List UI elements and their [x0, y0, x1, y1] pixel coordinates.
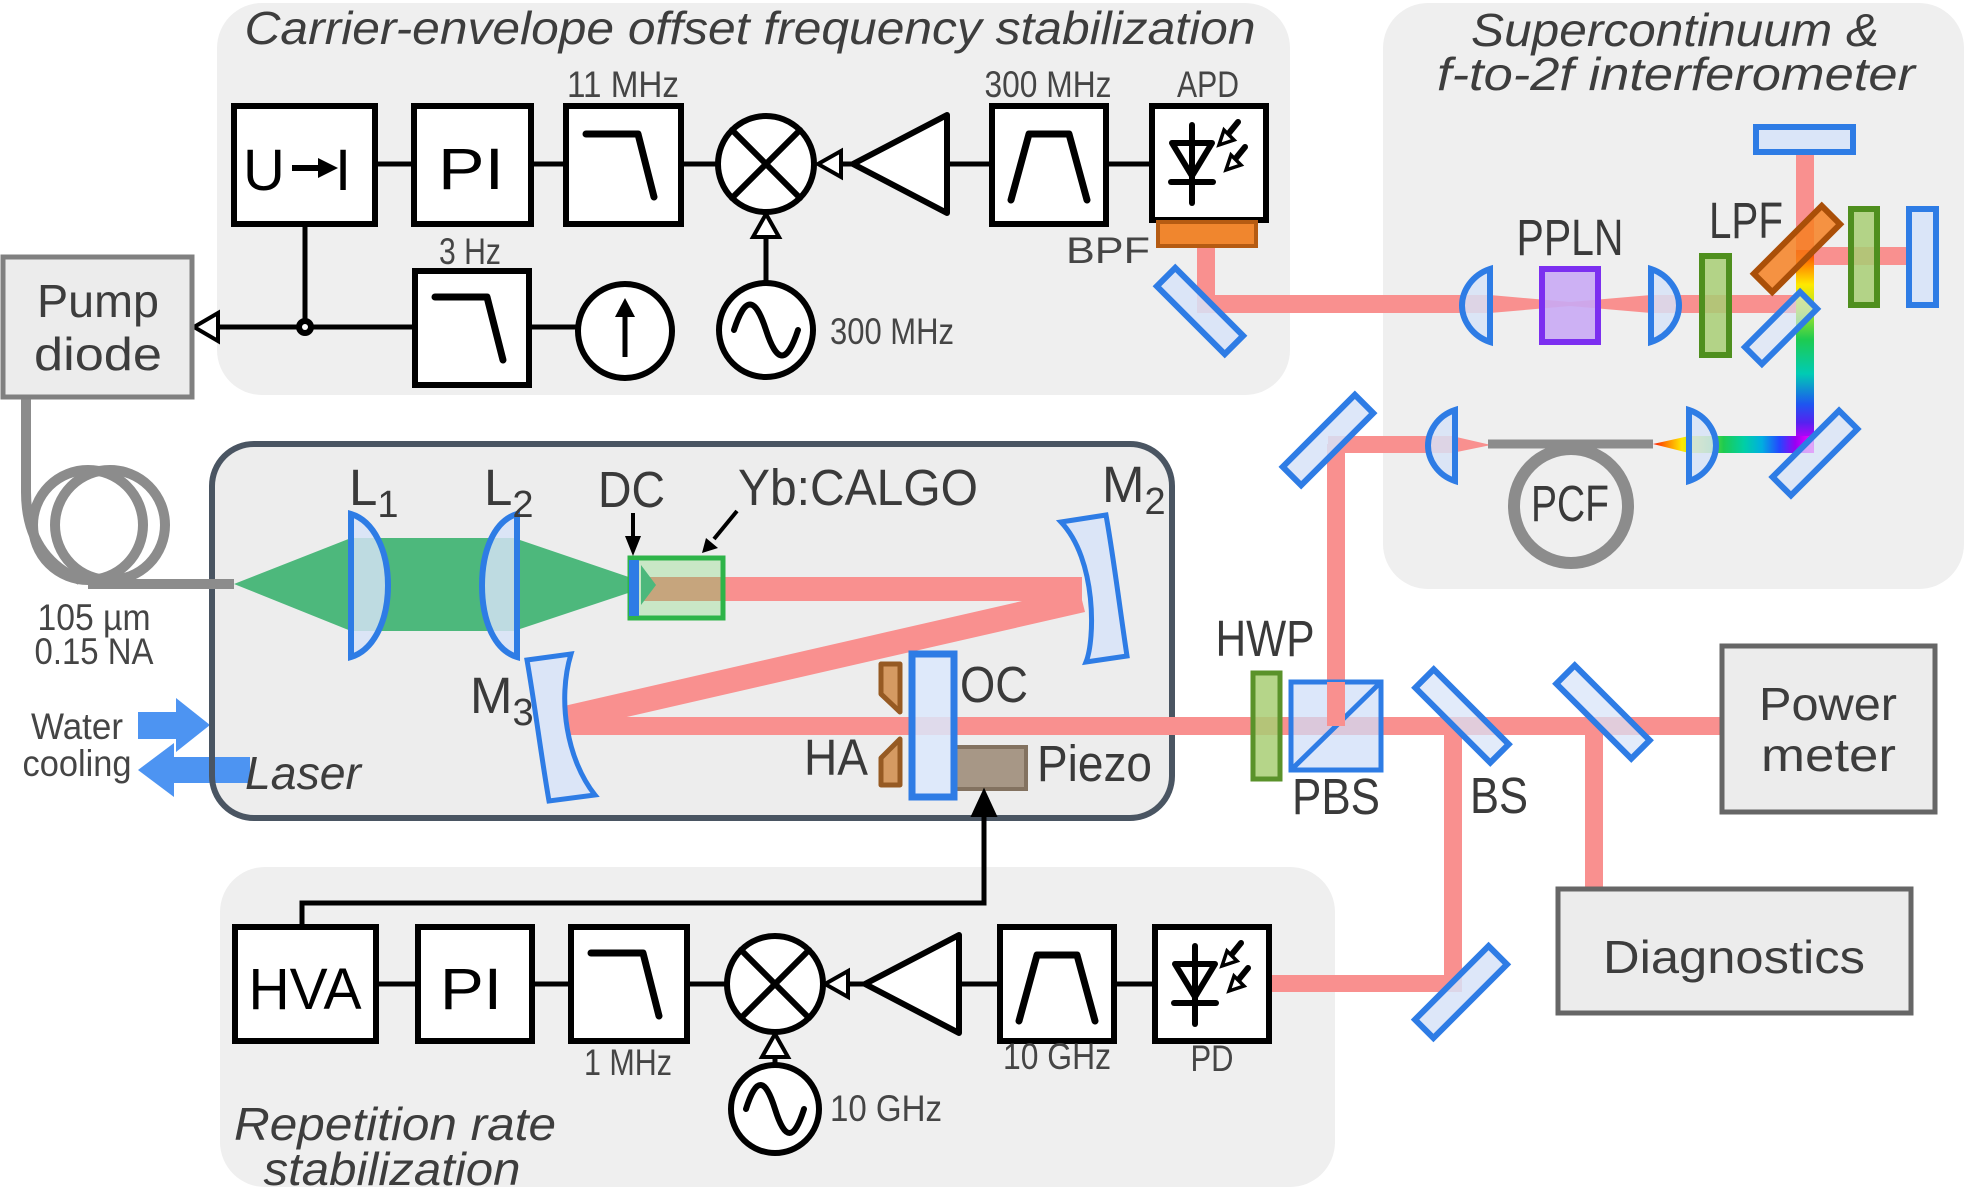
PD photodiode glyph: [1174, 943, 1248, 1024]
svg-text:300 MHz: 300 MHz: [985, 64, 1112, 105]
svg-text:Diagnostics: Diagnostics: [1603, 931, 1865, 983]
beam converging into PPLN: [1490, 295, 1570, 313]
pump fiber from pump diode: [26, 395, 80, 580]
Yb:CALGO crystal body: [630, 558, 723, 618]
beam PBS reflected up (over PBS): [1327, 682, 1345, 726]
long-pass filter LPF: [1754, 206, 1840, 292]
svg-text:HA: HA: [804, 729, 868, 786]
beam LPF right arm to flat mirror: [1805, 247, 1912, 265]
main output beam M3 to power meter: [566, 717, 1722, 735]
current source circle: [578, 284, 672, 378]
wire amp to 10GHz BPF: [959, 982, 1000, 987]
300 MHz source circle: [719, 283, 813, 377]
svg-text:10 GHz: 10 GHz: [830, 1088, 942, 1129]
output coupler OC: [912, 654, 954, 797]
svg-text:U: U: [243, 138, 285, 203]
svg-text:11 MHz: 11 MHz: [567, 64, 679, 105]
wire PI to 1MHz: [532, 982, 571, 987]
1MHz low-pass glyph: [591, 953, 659, 1016]
svg-text:diode: diode: [34, 328, 162, 380]
hard aperture HA upper wedge: [881, 664, 900, 712]
wire amp to 300MHz BPF: [947, 162, 992, 167]
11 MHz low-pass filter box: [566, 106, 681, 224]
APD box: [1152, 106, 1266, 220]
svg-text:cooling: cooling: [23, 743, 132, 784]
supercontinuum rainbow beam vertical: [1796, 250, 1814, 453]
fold mirror to PD: [1415, 946, 1507, 1038]
green filter after PPLN: [1702, 256, 1729, 355]
PCF input lens: [1428, 410, 1455, 481]
PI controller box bottom: [418, 927, 532, 1041]
svg-text:1 MHz: 1 MHz: [584, 1042, 672, 1083]
beam converging into PCF fiber: [1452, 436, 1491, 453]
Yb:CALGO pointer arrow: [714, 511, 737, 539]
supercontinuum bottom fold mirror: [1773, 411, 1858, 496]
right arm flat mirror: [1909, 209, 1936, 305]
arrowhead into bottom mixer from amp: [825, 971, 848, 997]
arrowhead into piezo: [972, 790, 996, 816]
PI controller box: [414, 106, 531, 224]
PPLN crystal: [1542, 269, 1598, 342]
low-pass glyph: [586, 134, 654, 197]
DC coating stripe: [629, 560, 639, 616]
U to I converter box: [234, 106, 375, 224]
3 Hz low-pass filter box: [415, 271, 529, 385]
wire 10GHz BPF to PD: [1114, 982, 1155, 987]
svg-text:Power: Power: [1759, 678, 1897, 730]
polarizing beam splitter PBS: [1291, 682, 1381, 770]
mixer cross: [732, 130, 800, 198]
green pump beam converging into crystal: [517, 539, 652, 630]
beam second splitter down to diagnostics: [1585, 726, 1603, 889]
PD box: [1155, 927, 1269, 1041]
svg-text:Piezo: Piezo: [1037, 735, 1152, 792]
bottom mixer cross: [741, 950, 809, 1018]
PCF fiber line: [1488, 440, 1653, 449]
piezo actuator: [954, 747, 1026, 789]
svg-text:HVA: HVA: [249, 957, 362, 1022]
junction node: [296, 318, 314, 336]
svg-text:PPLN: PPLN: [1517, 209, 1624, 266]
green pump beam collimated L1 to L2: [351, 538, 517, 631]
beam top mirror down to LPF: [1796, 152, 1814, 252]
lens L1: [351, 514, 388, 657]
svg-text:stabilization: stabilization: [264, 1143, 521, 1195]
svg-text:Pump: Pump: [37, 275, 159, 327]
pump focus wedge in crystal: [641, 565, 656, 605]
DC pointer arrow: [631, 513, 635, 538]
curved mirror M2: [1061, 515, 1127, 662]
HVA box: [235, 927, 376, 1041]
svg-text:10 GHz: 10 GHz: [1003, 1036, 1111, 1077]
arrowhead into pump diode: [194, 313, 218, 341]
fold mirror into supercontinuum: [1283, 395, 1374, 486]
curved mirror M3: [527, 654, 595, 801]
arrowhead into mixer from source: [753, 214, 779, 237]
beam mirror to PD: [1269, 975, 1462, 992]
svg-text:I: I: [335, 138, 351, 203]
right arm green filter: [1851, 209, 1877, 305]
beam f-to-2f to APD fold mirror: [1197, 295, 1490, 313]
APD photodiode glyph: [1171, 122, 1245, 203]
beam splitter BS: [1415, 669, 1508, 762]
fold mirror to power meter: [1556, 665, 1649, 758]
BPF orange filter on APD: [1158, 222, 1256, 246]
wire amp to mixer: [841, 162, 856, 167]
beam fold mirror to PCF input lens: [1328, 436, 1452, 453]
current source arrow: [623, 313, 628, 357]
mixer circle: [718, 116, 814, 212]
1 MHz low-pass filter box: [571, 927, 687, 1041]
feedback line HVA to piezo: [302, 812, 984, 941]
pump fiber coil loop 2: [55, 470, 165, 580]
svg-text:3 Hz: 3 Hz: [439, 231, 501, 272]
bottom mixer circle: [727, 936, 823, 1032]
panel: repetition rate stabilization: [220, 867, 1335, 1187]
3Hz low-pass glyph: [435, 297, 503, 360]
svg-text:DC: DC: [598, 461, 665, 518]
wire 1MHz to mixer: [687, 982, 727, 987]
laser box outline: [212, 444, 1172, 818]
beam PBS up to fold mirror: [1327, 444, 1345, 726]
sine glyph: [734, 305, 798, 356]
lens L2: [482, 514, 517, 657]
water cooling arrow out: [138, 743, 250, 797]
bottom amplifier triangle: [865, 935, 959, 1033]
svg-text:PI: PI: [438, 137, 504, 202]
wire 300MHz BPF to APD: [1106, 162, 1152, 167]
laser cavity beam crystal to M2: [639, 577, 1082, 601]
half-wave plate HWP: [1253, 673, 1280, 779]
crystal outline: [630, 558, 723, 618]
band-pass glyph: [1011, 134, 1087, 200]
svg-text:meter: meter: [1761, 729, 1896, 781]
lens before PPLN: [1462, 269, 1490, 342]
beam BS down: [1444, 726, 1462, 992]
svg-text:Laser: Laser: [245, 747, 363, 799]
10GHz band-pass glyph: [1019, 955, 1095, 1021]
svg-text:HWP: HWP: [1216, 610, 1315, 667]
wire 3Hz to current source: [529, 325, 578, 330]
svg-text:Yb:CALGO: Yb:CALGO: [738, 459, 978, 516]
laser cavity diagonal beam M2 to M3: [564, 588, 1085, 730]
beam APD down from bandpass filter: [1197, 246, 1215, 312]
svg-text:PCF: PCF: [1531, 475, 1609, 532]
fold mirror below BPF: [1157, 268, 1243, 354]
PBS diagonal: [1291, 682, 1381, 770]
svg-text:PD: PD: [1191, 1038, 1234, 1079]
crystal gain band (beam overlap): [641, 577, 723, 601]
wire junction to pump diode: [216, 325, 415, 330]
power meter box: [1722, 646, 1935, 812]
wire 10GHz source to mixer: [773, 1057, 778, 1065]
diagnostics box: [1558, 889, 1911, 1013]
svg-text:PBS: PBS: [1292, 768, 1380, 825]
panel: carrier-envelope offset frequency stabilization: [217, 3, 1290, 395]
pump diode box: [3, 257, 192, 397]
svg-text:0.15 NA: 0.15 NA: [35, 631, 154, 672]
10 GHz source circle: [731, 1065, 819, 1153]
PD light arrowheads: [1222, 951, 1237, 966]
pump fiber into laser box: [88, 579, 234, 589]
supercontinuum rainbow beam horizontal from PCF: [1653, 436, 1813, 453]
water cooling arrow in: [138, 698, 210, 752]
wire U-I down to junction: [303, 224, 308, 327]
beam diverging out of PPLN: [1570, 295, 1651, 313]
wire 11MHz LPF to mixer: [681, 162, 718, 167]
svg-text:Water: Water: [31, 706, 123, 747]
APD light arrowheads: [1219, 130, 1234, 145]
laser box: [212, 444, 1172, 818]
PCF output lens: [1689, 410, 1716, 481]
pump fiber coil loop 1: [33, 470, 143, 580]
bottom sine glyph: [746, 1085, 804, 1133]
svg-text:PI: PI: [440, 957, 502, 1022]
svg-text:300 MHz: 300 MHz: [830, 311, 954, 352]
wire amp to mixer bottom: [848, 982, 868, 987]
wire 300MHz source to mixer: [764, 237, 769, 283]
wire PI to 11MHz LPF: [531, 162, 566, 167]
panel: supercontinuum f-to-2f interferometer: [1383, 3, 1964, 589]
svg-text:OC: OC: [960, 656, 1028, 713]
beam PPLN lens to interferometer: [1651, 295, 1813, 313]
wire HVA to PI: [376, 982, 418, 987]
beam combiner mirror: [1745, 292, 1817, 364]
300 MHz band-pass filter box: [992, 106, 1106, 224]
green pump beam cone from fiber to L1: [234, 538, 351, 631]
arrowhead into bottom mixer from source: [762, 1034, 788, 1057]
svg-text:BPF: BPF: [1066, 230, 1150, 271]
10 GHz band-pass filter box: [1000, 927, 1114, 1041]
hard aperture HA lower wedge: [881, 739, 900, 785]
svg-text:f-to-2f interferometer: f-to-2f interferometer: [1437, 48, 1917, 100]
svg-text:Carrier-envelope offset freque: Carrier-envelope offset frequency stabil…: [245, 2, 1256, 54]
amplifier triangle: [853, 115, 947, 213]
U-I arrow glyph: [292, 165, 322, 171]
svg-text:BS: BS: [1470, 767, 1528, 824]
arrowhead into mixer from amp: [818, 151, 841, 177]
PCF fiber coil: [1514, 449, 1628, 563]
top retro mirror of interferometer: [1756, 127, 1853, 152]
wire U-I to PI: [375, 162, 414, 167]
svg-text:LPF: LPF: [1709, 192, 1783, 249]
lens after PPLN: [1651, 269, 1679, 342]
svg-text:APD: APD: [1177, 64, 1239, 105]
